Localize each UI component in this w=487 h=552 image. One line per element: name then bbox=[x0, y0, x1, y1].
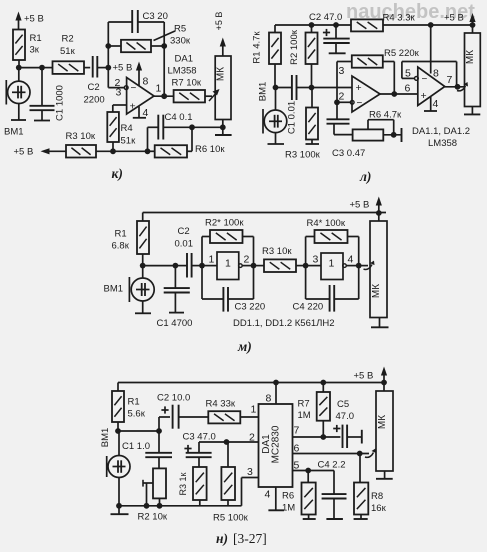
svg-text:3: 3 bbox=[339, 65, 345, 77]
pin 1 output wire (k) bbox=[154, 95, 174, 97]
resistor R5 100k (n) bbox=[227, 442, 229, 467]
MK microcontroller box (k) bbox=[215, 56, 231, 120]
svg-text:1: 1 bbox=[156, 83, 162, 95]
node: bottom rail / C4 / R6 (k) bbox=[145, 148, 151, 154]
svg-text:16к: 16к bbox=[371, 503, 387, 514]
+5V arrow (l) bbox=[472, 19, 474, 25]
svg-text:R1 4.7к: R1 4.7к bbox=[252, 31, 263, 64]
pin 8 wire (l) bbox=[430, 25, 432, 74]
MK ground (n) bbox=[384, 471, 386, 479]
svg-text:R1: R1 bbox=[30, 33, 42, 44]
capacitor C1 1000 (k) bbox=[41, 68, 43, 106]
wire R2 to C2 (k) bbox=[84, 67, 90, 69]
pin 2 wire with input circle (k) bbox=[108, 87, 124, 89]
capacitor C4 220 feedback (m) bbox=[305, 266, 307, 299]
resistor R7 10k (k) bbox=[174, 90, 205, 102]
svg-text:5: 5 bbox=[405, 68, 411, 80]
svg-text:R4* 100к: R4* 100к bbox=[307, 218, 346, 229]
svg-text:8: 8 bbox=[143, 76, 149, 88]
svg-text:C3 220: C3 220 bbox=[235, 302, 266, 313]
svg-text:R2 100к: R2 100к bbox=[289, 29, 300, 65]
resistor R3 1k (n) bbox=[193, 467, 207, 500]
arrow into MK (n) bbox=[365, 453, 374, 458]
svg-text:−: − bbox=[422, 74, 428, 85]
svg-text:R4 3.3к: R4 3.3к bbox=[383, 13, 416, 24]
svg-text:ВМ1: ВМ1 bbox=[258, 82, 269, 102]
svg-text:+5 В: +5 В bbox=[444, 13, 464, 24]
wire R7 to MK with arrow (k) bbox=[205, 95, 212, 97]
svg-text:ВМ1: ВМ1 bbox=[4, 127, 24, 138]
inverter DD1.1 (m) bbox=[202, 265, 217, 267]
node: DD1.1 output (m) bbox=[251, 263, 257, 269]
pin 2 wire with circle (l) bbox=[337, 101, 350, 103]
node: R7 / pin7 (n) bbox=[320, 434, 326, 440]
svg-text:C4 220: C4 220 bbox=[293, 302, 324, 313]
node: mic / R1 / R2 junction (k) bbox=[16, 65, 22, 71]
svg-text:4: 4 bbox=[143, 107, 149, 119]
wire node to C1 (k) bbox=[19, 67, 42, 69]
node: output / feedback right (l) bbox=[455, 84, 461, 90]
svg-text:6: 6 bbox=[294, 443, 300, 455]
svg-text:C1 1.0: C1 1.0 bbox=[122, 441, 150, 452]
svg-text:[3-27]: [3-27] bbox=[233, 531, 267, 546]
node: C1 / C2 (n) bbox=[156, 428, 162, 434]
pointer line from R5 label (k) bbox=[154, 31, 176, 41]
+5V arrow (m) bbox=[378, 203, 380, 213]
resistor R4 33k (n) bbox=[208, 411, 240, 423]
svg-text:5: 5 bbox=[294, 460, 300, 472]
microphone BM1 (n) bbox=[106, 456, 108, 477]
resistor R1 5.6k (n) bbox=[117, 383, 119, 392]
svg-text:−: − bbox=[357, 98, 363, 109]
svg-text:1: 1 bbox=[209, 254, 215, 266]
bottom ground rail (n) bbox=[119, 505, 242, 507]
wire feedback top (k) bbox=[108, 21, 132, 23]
wire C2 to input node (m) bbox=[192, 265, 202, 267]
svg-text:R4 33к: R4 33к bbox=[206, 399, 236, 410]
svg-text:R3 1к: R3 1к bbox=[178, 472, 188, 495]
node: BM1 / R1 / C1 (n) bbox=[115, 428, 121, 434]
resistor R4 51k (k) bbox=[107, 112, 119, 142]
top rail +5V (l) bbox=[275, 24, 351, 26]
MK box (m) bbox=[378, 213, 380, 221]
arrow into MK (l) bbox=[457, 86, 466, 91]
svg-text:8: 8 bbox=[433, 68, 439, 80]
node: DA1.1 output / feedback (l) bbox=[391, 91, 397, 97]
pin 7 wire (n) bbox=[293, 436, 341, 438]
wire output to MK with arrow (m) bbox=[359, 265, 368, 267]
svg-text:C3 20: C3 20 bbox=[143, 11, 168, 22]
common terminal bar after R6 (l) bbox=[401, 128, 403, 142]
svg-text:R2: R2 bbox=[62, 34, 74, 45]
node: BM1 / R1 (m) bbox=[140, 263, 146, 269]
svg-text:R2 10к: R2 10к bbox=[138, 512, 168, 523]
svg-text:R5: R5 bbox=[174, 24, 186, 35]
svg-text:1M: 1M bbox=[298, 410, 311, 421]
resistor R4* 100k feedback (m) bbox=[305, 237, 307, 266]
wire C4 left vertical to bottom rail (k) bbox=[147, 127, 149, 151]
svg-text:2: 2 bbox=[249, 432, 255, 444]
node: pin5 / R6 (n) bbox=[305, 468, 311, 474]
svg-text:м): м) bbox=[237, 339, 252, 354]
capacitor C2 0.01 (m) bbox=[175, 265, 186, 267]
svg-text:C2 47.0: C2 47.0 bbox=[309, 12, 342, 23]
svg-text:ВМ1: ВМ1 bbox=[100, 428, 111, 448]
svg-text:1: 1 bbox=[251, 404, 257, 416]
svg-text:3: 3 bbox=[116, 87, 122, 99]
BM1 ground bar (n) bbox=[118, 506, 120, 514]
svg-text:C2 10.0: C2 10.0 bbox=[157, 393, 190, 404]
circuit k: +5V supply arrow top-left bbox=[18, 18, 20, 30]
svg-text:2: 2 bbox=[244, 254, 250, 266]
node: rail end / MK (n) bbox=[381, 380, 387, 386]
svg-text:R7: R7 bbox=[298, 399, 310, 410]
svg-text:C3 0.47: C3 0.47 bbox=[332, 148, 365, 159]
node: rail / pin8 (n) bbox=[273, 380, 279, 386]
svg-text:DD1.1, DD1.2 К561ЛН2: DD1.1, DD1.2 К561ЛН2 bbox=[233, 318, 335, 329]
MK +5V arrow (k) bbox=[222, 44, 224, 57]
resistor R8 16k (n) bbox=[359, 454, 361, 483]
svg-text:C2: C2 bbox=[178, 226, 190, 237]
svg-text:л): л) bbox=[359, 169, 371, 184]
wire feedback left vertical (k) bbox=[107, 22, 109, 88]
svg-text:C1 1000: C1 1000 bbox=[55, 85, 66, 121]
wire R1 to input node (k) bbox=[18, 60, 20, 68]
node: R5 left (k) bbox=[105, 43, 111, 49]
svg-text:н): н) bbox=[216, 531, 228, 546]
svg-text:C1 4700: C1 4700 bbox=[157, 318, 193, 329]
svg-text:R8: R8 bbox=[371, 491, 383, 502]
wire R4 to pin1 (n) bbox=[240, 416, 258, 418]
svg-text:+5 В: +5 В bbox=[113, 63, 133, 74]
svg-text:R7 10к: R7 10к bbox=[172, 78, 202, 89]
svg-text:51к: 51к bbox=[60, 46, 76, 57]
+5V arrow (n) bbox=[383, 373, 385, 383]
node: rail end / MK (l) bbox=[470, 22, 476, 28]
svg-text:+5 В: +5 В bbox=[14, 147, 34, 158]
capacitor C2 47.0 electrolytic (l) bbox=[335, 25, 337, 38]
node: BM1 ground rail (n) bbox=[116, 503, 122, 509]
svg-text:1M: 1M bbox=[282, 503, 295, 514]
pin 4 ground (l) bbox=[430, 97, 432, 112]
resistor R3 100k (l) bbox=[306, 108, 318, 140]
svg-text:+: + bbox=[421, 90, 427, 102]
svg-text:+: + bbox=[130, 101, 136, 113]
pin 3 wire to ground (n) bbox=[242, 477, 259, 479]
node: R2 top (l) bbox=[309, 22, 315, 28]
microphone BM1 (k) bbox=[5, 80, 7, 105]
svg-text:C5: C5 bbox=[337, 399, 349, 410]
svg-text:2200: 2200 bbox=[84, 95, 105, 106]
node: R1 / BM1 junction (l) bbox=[273, 85, 279, 91]
node: rail / R7 (n) bbox=[320, 380, 326, 386]
svg-text:R5 220к: R5 220к bbox=[384, 48, 420, 59]
resistor R1 4.7k (l) bbox=[269, 33, 281, 65]
svg-text:C2: C2 bbox=[88, 82, 100, 93]
node: R6 right (l) bbox=[391, 132, 397, 138]
resistor R6 1M (n) bbox=[307, 471, 309, 483]
resistor R3 10k (m) bbox=[254, 265, 265, 267]
wire node to C1/C2 riser (n) bbox=[118, 430, 159, 432]
svg-text:+5 В: +5 В bbox=[354, 371, 374, 382]
svg-text:LM358: LM358 bbox=[168, 66, 197, 77]
op-amp DA1 triangle (k) bbox=[127, 78, 154, 115]
capacitor C2 10.0 electrolytic (n) bbox=[158, 417, 160, 431]
node: R2 wiper (n) bbox=[144, 503, 150, 509]
pin 4 ground (n) bbox=[275, 487, 277, 510]
svg-text:к): к) bbox=[112, 166, 123, 181]
svg-text:C3 47.0: C3 47.0 bbox=[183, 432, 216, 443]
svg-text:+: + bbox=[356, 82, 362, 94]
svg-text:R5 100к: R5 100к bbox=[213, 513, 249, 524]
svg-text:+5 В: +5 В bbox=[214, 12, 224, 31]
common terminal bar after C5 (n) bbox=[361, 430, 363, 444]
wire C2 to R4 (n) bbox=[179, 416, 209, 418]
svg-text:8: 8 bbox=[266, 393, 272, 405]
svg-text:3: 3 bbox=[313, 254, 319, 266]
MK ground (l) bbox=[471, 107, 473, 115]
capacitor C4 2.2 (n) bbox=[333, 471, 335, 495]
svg-text:+5 В: +5 В bbox=[350, 200, 370, 211]
svg-text:R3 10к: R3 10к bbox=[262, 246, 292, 257]
node: DD1.1 input (m) bbox=[199, 263, 205, 269]
capacitor C3 0.47 (l) bbox=[336, 102, 338, 119]
node: pin2 / R5 / C3 (l) bbox=[334, 99, 340, 105]
resistor R2* 100k feedback (m) bbox=[201, 237, 203, 266]
node: rail / pin8 (l) bbox=[428, 22, 434, 28]
microphone BM1 (m) bbox=[128, 277, 130, 302]
svg-text:DA1: DA1 bbox=[175, 54, 193, 65]
wire C2 to inverting node (k) bbox=[97, 67, 108, 69]
svg-text:1: 1 bbox=[225, 258, 231, 270]
node: R2 bottom (n) bbox=[157, 503, 163, 509]
wire node to R2 (k) bbox=[42, 67, 53, 69]
svg-text:LM358: LM358 bbox=[428, 138, 457, 149]
svg-text:R1: R1 bbox=[128, 397, 140, 408]
capacitor C4 0.1 (k) bbox=[157, 115, 159, 140]
svg-text:R4: R4 bbox=[121, 123, 133, 134]
top rail +5V (n) bbox=[118, 382, 384, 384]
resistor R6 4.7k (l) bbox=[353, 129, 384, 140]
IC DA1 MC2830 box (n) bbox=[259, 404, 293, 487]
svg-text:7: 7 bbox=[294, 425, 300, 437]
capacitor C3 220 feedback (m) bbox=[201, 266, 203, 299]
op-amp DA1.2 triangle (l) bbox=[418, 67, 445, 106]
op-amp DA1.1 triangle (l) bbox=[352, 76, 380, 112]
pin 6 wire (n) bbox=[293, 453, 370, 455]
resistor R6 10k (k) bbox=[148, 150, 155, 152]
MK ground (m) bbox=[379, 318, 381, 328]
node: C4 right / R6 riser (k) bbox=[189, 124, 195, 130]
node: pin6 / R8 (n) bbox=[357, 451, 363, 457]
pin 8 +5V arrow (k) bbox=[138, 68, 140, 86]
node: C2 / feedback junction (k) bbox=[105, 65, 111, 71]
svg-text:3: 3 bbox=[247, 466, 253, 478]
capacitor C3 20 (k) bbox=[131, 10, 133, 33]
capacitor C2 2200 (k) bbox=[92, 56, 94, 78]
pin 8 wire (n) bbox=[275, 383, 277, 405]
output pin 7 wire (l) bbox=[445, 86, 465, 88]
MK ground (k) bbox=[222, 120, 224, 136]
svg-text:4: 4 bbox=[265, 489, 271, 501]
svg-text:R2* 100к: R2* 100к bbox=[205, 218, 244, 229]
capacitor C5 47.0 electrolytic (n) bbox=[333, 428, 340, 430]
capacitor C1 4700 (m) bbox=[174, 266, 176, 288]
svg-text:МК: МК bbox=[377, 415, 388, 429]
wire C1 to R2/R3 node (l) bbox=[297, 87, 312, 89]
node: output / feedback (k) bbox=[161, 93, 167, 99]
output wire DA1.1 to pin6 (l) bbox=[380, 93, 418, 95]
pin 3 wire (k) bbox=[113, 104, 127, 106]
node: C1 junction (k) bbox=[39, 65, 45, 71]
svg-text:C4 2.2: C4 2.2 bbox=[318, 460, 346, 471]
resistor R3 10k (k) bbox=[66, 145, 96, 158]
wire to C1 node (m) bbox=[143, 265, 176, 267]
svg-text:+5 В: +5 В bbox=[24, 14, 44, 25]
svg-text:51к: 51к bbox=[121, 136, 137, 147]
pin 5 wire (n) bbox=[293, 470, 335, 472]
bottom rail wire (k) bbox=[96, 150, 148, 152]
svg-text:3к: 3к bbox=[30, 45, 40, 56]
top rail +5V (m) bbox=[143, 212, 386, 214]
svg-text:R6 4.7к: R6 4.7к bbox=[369, 110, 402, 121]
node: R5 right (k) bbox=[161, 43, 167, 49]
svg-text:МК: МК bbox=[465, 50, 476, 64]
resistor R2 51k (k) bbox=[53, 61, 85, 74]
svg-text:C1 0.01: C1 0.01 bbox=[287, 101, 298, 134]
inverter DD1.2 (m) bbox=[306, 265, 321, 267]
capacitor C1 0.01 (l) bbox=[291, 75, 293, 100]
node: C1 (m) bbox=[173, 263, 179, 269]
node: R2 / R3 / signal (l) bbox=[309, 85, 315, 91]
node: pin2 / R5 (n) bbox=[224, 439, 230, 445]
svg-text:R6: R6 bbox=[282, 491, 294, 502]
pin 4 ground (k) bbox=[138, 107, 140, 118]
resistor R1 6.8k (m) bbox=[142, 213, 144, 222]
svg-text:МК: МК bbox=[216, 67, 227, 81]
wire feedback right vertical (k) bbox=[163, 22, 165, 96]
wire R4 bottom to rail (k) bbox=[112, 142, 114, 151]
+5V left arrow (k) bbox=[47, 150, 67, 152]
node: R4 bottom (k) bbox=[110, 148, 116, 154]
resistor R5 330k feedback (k) bbox=[108, 45, 121, 47]
svg-text:МК: МК bbox=[371, 284, 382, 298]
svg-text:R3 100к: R3 100к bbox=[285, 150, 321, 161]
node: C2 top (l) bbox=[333, 22, 339, 28]
svg-text:47.0: 47.0 bbox=[336, 411, 355, 422]
capacitor C1 1.0 (n) bbox=[158, 431, 160, 453]
svg-text:R1: R1 bbox=[115, 229, 127, 240]
resistor R7 1M (n) bbox=[322, 383, 324, 393]
svg-text:5.6к: 5.6к bbox=[128, 409, 146, 420]
feedback loop DA1.2 (l) bbox=[402, 77, 415, 79]
resistor R4 3.3k in rail (l) bbox=[351, 19, 383, 31]
svg-text:330к: 330к bbox=[170, 36, 191, 47]
svg-text:C4 0.1: C4 0.1 bbox=[165, 112, 193, 123]
pin 2 wire (n) bbox=[199, 441, 259, 443]
svg-text:DA1.1, DA1.2: DA1.1, DA1.2 bbox=[412, 126, 470, 137]
resistor R1 3k (k) bbox=[13, 30, 25, 61]
resistor R5 220k feedback (l) bbox=[336, 62, 338, 103]
MK box (n) bbox=[383, 383, 385, 392]
svg-text:−: − bbox=[131, 83, 137, 94]
node: DD1.2 input (m) bbox=[303, 263, 309, 269]
wire to pin3 (l) bbox=[312, 87, 353, 89]
svg-text:6: 6 bbox=[405, 83, 411, 95]
svg-text:R3 10к: R3 10к bbox=[66, 131, 96, 142]
svg-text:1: 1 bbox=[329, 258, 335, 270]
svg-text:6.8к: 6.8к bbox=[112, 241, 130, 252]
svg-text:0.01: 0.01 bbox=[175, 239, 194, 250]
resistor R2 100k (l) bbox=[306, 33, 318, 65]
MK box (l) bbox=[472, 25, 474, 33]
svg-text:МС2830: МС2830 bbox=[271, 425, 282, 463]
svg-text:R6 10к: R6 10к bbox=[195, 144, 225, 155]
wire BM1 node to C1 (l) bbox=[276, 87, 292, 89]
svg-text:4: 4 bbox=[348, 254, 354, 266]
svg-text:4: 4 bbox=[433, 98, 439, 110]
node: DD1.2 output (m) bbox=[356, 263, 362, 269]
svg-text:7: 7 bbox=[447, 74, 453, 86]
node: rail / MK top (m) bbox=[376, 210, 382, 216]
capacitor C3 47.0 electrolytic (n) bbox=[184, 448, 191, 450]
microphone BM1 (l) bbox=[262, 109, 264, 134]
resistor R2 10k trimmer (n) bbox=[153, 468, 166, 498]
svg-text:ВМ1: ВМ1 bbox=[104, 284, 124, 295]
